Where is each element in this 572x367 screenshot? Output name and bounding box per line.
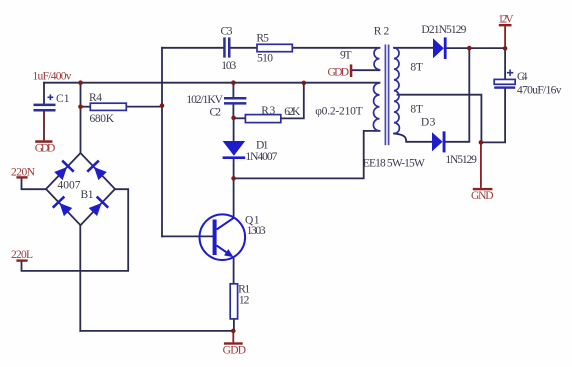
- svg-text:1N4007: 1N4007: [245, 151, 277, 163]
- svg-text:GDD: GDD: [328, 67, 350, 79]
- svg-text:470uF/16v: 470uF/16v: [517, 85, 562, 97]
- svg-text:62K: 62K: [284, 106, 301, 118]
- svg-text:C1: C1: [56, 93, 70, 105]
- svg-text:1N5129: 1N5129: [445, 154, 477, 166]
- svg-text:R4: R4: [89, 92, 102, 104]
- svg-text:D1: D1: [256, 139, 269, 151]
- svg-text:C3: C3: [221, 25, 233, 37]
- svg-text:1uF/400v: 1uF/400v: [33, 71, 72, 83]
- svg-text:1303: 1303: [247, 225, 266, 237]
- svg-text:9T: 9T: [340, 49, 352, 61]
- svg-text:220N: 220N: [11, 166, 36, 178]
- svg-text:EE18 5W-15W: EE18 5W-15W: [363, 157, 425, 169]
- svg-text:GDD: GDD: [223, 345, 247, 357]
- svg-text:12V: 12V: [498, 13, 514, 25]
- svg-text:R3: R3: [261, 105, 275, 117]
- svg-text:12: 12: [239, 295, 250, 307]
- svg-text:φ0.2-210T: φ0.2-210T: [315, 105, 363, 117]
- svg-text:220L: 220L: [11, 249, 33, 261]
- svg-text:GDD: GDD: [35, 143, 56, 155]
- svg-text:D3: D3: [421, 116, 436, 128]
- svg-text:C2: C2: [210, 106, 222, 118]
- svg-text:GND: GND: [471, 190, 494, 202]
- svg-text:B1: B1: [81, 189, 94, 201]
- svg-text:102/1KV: 102/1KV: [186, 94, 223, 106]
- svg-text:8T: 8T: [410, 61, 423, 73]
- svg-text:D21N5129: D21N5129: [421, 24, 466, 36]
- svg-text:103: 103: [221, 60, 236, 72]
- svg-text:510: 510: [257, 53, 273, 65]
- svg-text:680K: 680K: [90, 113, 115, 125]
- svg-text:4007: 4007: [58, 179, 81, 191]
- svg-text:R1: R1: [238, 283, 250, 295]
- svg-text:C4: C4: [517, 71, 528, 83]
- svg-text:R5: R5: [256, 33, 269, 45]
- svg-text:R2: R2: [374, 26, 390, 38]
- svg-text:8T: 8T: [410, 104, 423, 116]
